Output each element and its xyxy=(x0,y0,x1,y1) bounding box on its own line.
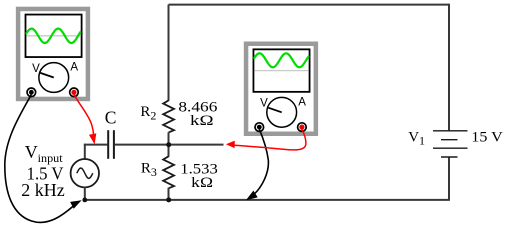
probe lead M2 black xyxy=(253,129,269,195)
wire: capacitor to junction node, stub to probe xyxy=(115,144,224,146)
wire: source riser xyxy=(84,144,86,159)
wire: source to bottom rail xyxy=(84,187,86,200)
svg-text:A: A xyxy=(70,62,78,74)
wire: R2 to junction xyxy=(168,132,170,144)
wire: right rail upper (to battery +) xyxy=(448,4,450,131)
meter M1 black terminal xyxy=(27,88,36,97)
meter M2 screen centerline xyxy=(254,70,308,72)
wire: bottom rail xyxy=(85,199,450,201)
source V_input circle xyxy=(71,159,99,187)
meter M2 black terminal xyxy=(255,123,264,132)
svg-text:R3: R3 xyxy=(141,161,157,179)
svg-text:kΩ: kΩ xyxy=(190,113,214,129)
meter M1 red terminal xyxy=(70,88,79,97)
svg-text:2 kHz: 2 kHz xyxy=(21,180,64,200)
svg-text:V1: V1 xyxy=(408,130,425,148)
meter M1 dial xyxy=(39,63,69,93)
sine symbol inside source xyxy=(77,168,93,178)
svg-text:C: C xyxy=(105,107,117,127)
wire: R3 to bottom rail xyxy=(168,188,170,200)
node: source bottom junction xyxy=(82,198,87,203)
meter M2 green trace xyxy=(254,53,308,67)
meter M2 needle xyxy=(268,108,281,113)
resistor R2 zigzag xyxy=(163,100,174,132)
probe lead M1 black xyxy=(5,95,74,223)
meter M2 red terminal xyxy=(298,123,307,132)
svg-text:Vinput: Vinput xyxy=(25,142,64,165)
svg-text:V: V xyxy=(32,63,40,75)
capacitor C plates xyxy=(107,130,109,159)
node: R2/R3/C junction xyxy=(166,142,171,147)
svg-text:V: V xyxy=(260,98,268,110)
meter M1 screen xyxy=(26,15,82,58)
svg-text:A: A xyxy=(298,96,306,108)
svg-text:R2: R2 xyxy=(140,104,156,122)
meter M1 needle xyxy=(40,73,53,78)
probe lead M2 red xyxy=(234,129,306,150)
meter M2 body xyxy=(244,42,318,137)
battery V1 xyxy=(433,131,468,157)
wire: top rail xyxy=(169,4,450,6)
probe lead M1 red xyxy=(74,95,94,135)
resistor R3 zigzag xyxy=(163,156,174,188)
svg-text:kΩ: kΩ xyxy=(191,175,213,191)
svg-text:15 V: 15 V xyxy=(471,130,503,146)
wire: junction to R3 xyxy=(168,145,170,157)
meter M1 screen centerline xyxy=(26,35,80,37)
meter M2 dial xyxy=(267,97,297,127)
wire: source to capacitor xyxy=(84,144,107,146)
meter M2 screen xyxy=(253,49,309,92)
meter M1 body xyxy=(16,7,90,102)
meter M1 green trace xyxy=(26,29,80,43)
node: R3 bottom junction xyxy=(166,197,171,202)
wire: R2 riser from top rail xyxy=(168,5,170,101)
wire: right rail lower (battery - to bottom rail) xyxy=(448,157,450,200)
